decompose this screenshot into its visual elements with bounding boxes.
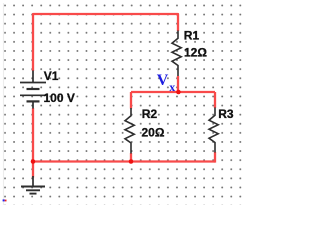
svg-text:100 V: 100 V xyxy=(44,91,75,105)
cursor mark bottom-left xyxy=(3,199,5,201)
wire top from battery to R1 xyxy=(33,14,178,71)
wire R3 bottom xyxy=(214,152,216,163)
wire R2 top xyxy=(130,92,132,109)
wire R1 bottom to node xyxy=(177,76,179,93)
svg-text:x: x xyxy=(169,80,175,94)
wire middle node horizontal xyxy=(131,91,215,93)
svg-text:R3: R3 xyxy=(218,107,234,121)
resistor R3 xyxy=(209,108,218,153)
battery V1 symbol xyxy=(20,71,46,109)
svg-text:20Ω: 20Ω xyxy=(142,125,165,139)
wire R2 bottom xyxy=(130,153,132,162)
resistor R1 xyxy=(172,31,181,77)
wire bottom xyxy=(32,160,215,162)
svg-text:V: V xyxy=(157,72,169,89)
node ground junction dot xyxy=(31,159,36,164)
node Vx junction dot xyxy=(176,90,181,95)
svg-text:12Ω: 12Ω xyxy=(184,45,207,59)
wire left battery bottom to ground junction xyxy=(32,108,34,162)
resistor R2 xyxy=(125,108,134,154)
ground xyxy=(21,176,45,194)
wire ground drop xyxy=(32,162,34,178)
svg-text:R1: R1 xyxy=(184,29,200,43)
wire R3 top xyxy=(214,92,216,108)
node R2-bottom junction dot xyxy=(129,159,134,164)
svg-text:R2: R2 xyxy=(142,107,158,121)
svg-text:V1: V1 xyxy=(44,69,59,83)
